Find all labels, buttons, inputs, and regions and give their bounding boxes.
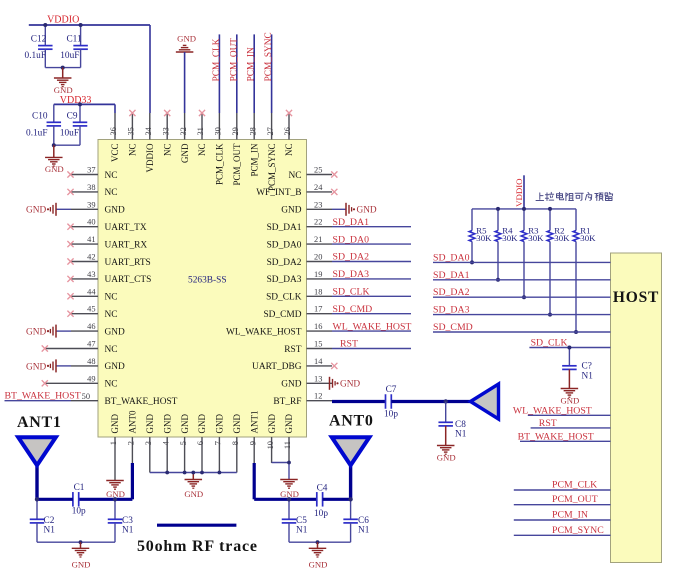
svg-text:C8: C8	[455, 420, 466, 430]
svg-text:32: 32	[179, 127, 188, 135]
svg-text:PCM_SYNC: PCM_SYNC	[552, 525, 604, 536]
svg-text:GND: GND	[26, 206, 46, 216]
svg-text:28: 28	[248, 127, 257, 135]
svg-text:GND: GND	[45, 164, 64, 174]
svg-text:PCM_CLK: PCM_CLK	[215, 143, 225, 185]
svg-text:NC: NC	[128, 144, 138, 157]
svg-text:49: 49	[87, 374, 95, 383]
svg-text:33: 33	[161, 127, 170, 135]
svg-text:GND: GND	[180, 414, 190, 434]
svg-text:41: 41	[87, 235, 95, 244]
svg-text:SD_DA0: SD_DA0	[433, 252, 470, 263]
svg-text:N1: N1	[44, 526, 56, 536]
svg-text:GND: GND	[437, 453, 456, 463]
svg-text:50ohm RF trace: 50ohm RF trace	[137, 538, 258, 555]
svg-text:VDDIO: VDDIO	[145, 143, 155, 172]
svg-text:NC: NC	[105, 310, 118, 320]
svg-text:BT_WAKE_HOST: BT_WAKE_HOST	[105, 397, 178, 407]
svg-text:7: 7	[214, 441, 223, 445]
svg-text:GND: GND	[110, 414, 120, 434]
svg-text:39: 39	[87, 200, 95, 209]
svg-text:10uF: 10uF	[60, 129, 79, 139]
svg-text:48: 48	[87, 357, 95, 366]
svg-text:26: 26	[283, 127, 292, 135]
svg-text:25: 25	[314, 166, 322, 175]
svg-text:SD_DA3: SD_DA3	[433, 305, 470, 316]
svg-text:37: 37	[87, 166, 95, 175]
svg-text:10p: 10p	[72, 506, 86, 516]
svg-text:SD_CLK: SD_CLK	[531, 338, 568, 349]
svg-text:C5: C5	[296, 516, 307, 526]
svg-text:C4: C4	[317, 484, 328, 494]
svg-text:WL_WAKE_HOST: WL_WAKE_HOST	[226, 327, 302, 337]
svg-text:GND: GND	[72, 560, 91, 570]
svg-text:ANT0: ANT0	[128, 410, 138, 433]
svg-text:RST: RST	[340, 339, 358, 350]
svg-text:PCM_SYNC: PCM_SYNC	[264, 32, 274, 81]
svg-text:SD_DA1: SD_DA1	[333, 217, 370, 228]
svg-text:GND: GND	[197, 414, 207, 434]
svg-text:30K: 30K	[580, 233, 596, 243]
svg-text:17: 17	[314, 305, 322, 314]
svg-text:46: 46	[87, 322, 95, 331]
svg-text:GND: GND	[26, 328, 46, 338]
svg-text:50: 50	[82, 392, 90, 401]
svg-text:SD_DA3: SD_DA3	[267, 275, 302, 285]
svg-text:GND: GND	[162, 414, 172, 434]
svg-text:42: 42	[87, 253, 95, 262]
svg-text:27: 27	[266, 127, 275, 135]
svg-text:BT_WAKE_HOST: BT_WAKE_HOST	[5, 391, 81, 402]
svg-text:11: 11	[283, 441, 292, 449]
svg-text:UART_RX: UART_RX	[105, 240, 148, 250]
svg-text:N1: N1	[455, 430, 467, 440]
svg-text:13: 13	[314, 374, 322, 383]
svg-text:24: 24	[314, 183, 323, 192]
svg-text:NC: NC	[288, 171, 301, 181]
svg-text:PCM_CLK: PCM_CLK	[212, 38, 222, 81]
svg-text:UART_TX: UART_TX	[105, 223, 147, 233]
svg-text:0.1uF: 0.1uF	[26, 129, 47, 139]
svg-text:NC: NC	[105, 380, 118, 390]
svg-text:GND: GND	[180, 143, 190, 163]
svg-text:GND: GND	[215, 414, 225, 434]
svg-text:VCC: VCC	[110, 144, 120, 163]
svg-text:30K: 30K	[528, 233, 544, 243]
svg-text:N1: N1	[296, 526, 308, 536]
svg-text:VDDIO: VDDIO	[47, 14, 79, 25]
svg-text:PCM_SYNC: PCM_SYNC	[267, 144, 277, 192]
svg-text:C2: C2	[44, 516, 55, 526]
svg-text:10uF: 10uF	[60, 51, 79, 61]
svg-text:2: 2	[127, 441, 136, 445]
svg-text:SD_DA0: SD_DA0	[267, 240, 302, 250]
svg-text:N1: N1	[358, 526, 370, 536]
svg-text:21: 21	[314, 235, 322, 244]
svg-text:SD_CMD: SD_CMD	[263, 310, 301, 320]
svg-text:GND: GND	[267, 414, 277, 434]
svg-text:GND: GND	[280, 489, 299, 499]
svg-text:GND: GND	[177, 34, 196, 44]
svg-text:NC: NC	[162, 144, 172, 157]
svg-text:0.1uF: 0.1uF	[25, 51, 46, 61]
svg-text:40: 40	[87, 218, 95, 227]
svg-text:C6: C6	[358, 516, 369, 526]
svg-text:ANT1: ANT1	[17, 414, 62, 431]
svg-text:30K: 30K	[502, 233, 518, 243]
svg-text:GND: GND	[106, 489, 125, 499]
svg-text:NC: NC	[105, 171, 118, 181]
svg-text:23: 23	[314, 200, 322, 209]
svg-text:5: 5	[179, 441, 188, 445]
svg-text:PCM_IN: PCM_IN	[552, 510, 588, 521]
svg-text:NC: NC	[105, 188, 118, 198]
svg-text:19: 19	[314, 270, 322, 279]
svg-text:38: 38	[87, 183, 95, 192]
svg-text:30: 30	[214, 127, 223, 135]
svg-text:35: 35	[127, 127, 136, 135]
svg-text:45: 45	[87, 305, 95, 314]
svg-text:UART_DBG: UART_DBG	[252, 362, 302, 372]
svg-text:PCM_OUT: PCM_OUT	[552, 494, 598, 505]
svg-text:8: 8	[231, 441, 240, 445]
svg-text:UART_RTS: UART_RTS	[105, 258, 151, 268]
svg-text:C9: C9	[67, 111, 78, 121]
svg-text:SD_CLK: SD_CLK	[333, 287, 370, 298]
svg-text:C1: C1	[74, 483, 85, 493]
svg-text:C?: C?	[582, 362, 592, 372]
svg-text:GND: GND	[145, 414, 155, 434]
svg-text:C10: C10	[32, 111, 48, 121]
svg-text:GND: GND	[184, 489, 203, 499]
svg-text:31: 31	[196, 127, 205, 135]
svg-text:SD_DA2: SD_DA2	[267, 258, 302, 268]
svg-text:1: 1	[109, 441, 118, 445]
svg-text:GND: GND	[309, 560, 328, 570]
svg-text:GND: GND	[105, 362, 126, 372]
svg-text:PCM_IN: PCM_IN	[249, 143, 259, 177]
svg-text:SD_DA2: SD_DA2	[333, 252, 370, 263]
svg-text:30K: 30K	[554, 233, 570, 243]
svg-text:6: 6	[196, 441, 205, 445]
svg-text:GND: GND	[105, 206, 126, 216]
svg-text:C3: C3	[122, 516, 133, 526]
svg-text:36: 36	[109, 127, 118, 135]
svg-text:NC: NC	[105, 293, 118, 303]
svg-text:SD_DA2: SD_DA2	[433, 287, 470, 298]
svg-text:NC: NC	[284, 144, 294, 157]
svg-text:SD_DA3: SD_DA3	[333, 269, 370, 280]
svg-text:47: 47	[87, 340, 95, 349]
svg-text:ANT1: ANT1	[249, 411, 259, 434]
svg-text:GND: GND	[232, 414, 242, 434]
svg-text:GND: GND	[105, 327, 126, 337]
svg-text:UART_CTS: UART_CTS	[105, 275, 152, 285]
svg-text:SD_CLK: SD_CLK	[266, 293, 302, 303]
svg-text:BT_WAKE_HOST: BT_WAKE_HOST	[518, 431, 594, 442]
svg-text:14: 14	[314, 357, 323, 366]
svg-text:9: 9	[248, 441, 257, 445]
svg-text:29: 29	[231, 127, 240, 135]
svg-text:N1: N1	[582, 372, 594, 382]
svg-text:C7: C7	[386, 385, 397, 395]
svg-text:PCM_CLK: PCM_CLK	[552, 480, 597, 491]
svg-text:C12: C12	[31, 35, 47, 45]
svg-text:WL_WAKE_HOST: WL_WAKE_HOST	[333, 321, 412, 332]
svg-text:GND: GND	[281, 380, 302, 390]
svg-text:RST: RST	[539, 418, 557, 429]
svg-text:SD_CMD: SD_CMD	[433, 322, 473, 333]
svg-text:C11: C11	[66, 35, 82, 45]
svg-text:ANT0: ANT0	[329, 413, 374, 430]
svg-text:WF_INT_B: WF_INT_B	[256, 188, 301, 198]
svg-text:5263B-SS: 5263B-SS	[188, 275, 227, 285]
svg-text:18: 18	[314, 287, 322, 296]
svg-text:10: 10	[266, 441, 275, 449]
svg-text:GND: GND	[281, 206, 302, 216]
svg-text:SD_DA1: SD_DA1	[433, 270, 470, 281]
svg-text:WL_WAKE_HOST: WL_WAKE_HOST	[513, 405, 592, 416]
svg-text:SD_DA0: SD_DA0	[333, 234, 370, 245]
svg-text:43: 43	[87, 270, 95, 279]
svg-text:HOST: HOST	[613, 289, 659, 306]
svg-text:NC: NC	[197, 144, 207, 157]
svg-text:GND: GND	[26, 362, 46, 372]
svg-text:GND: GND	[284, 414, 294, 434]
svg-text:SD_DA1: SD_DA1	[267, 223, 302, 233]
svg-text:PCM_OUT: PCM_OUT	[229, 38, 239, 82]
svg-text:GND: GND	[340, 380, 360, 390]
svg-text:BT_RF: BT_RF	[273, 397, 301, 407]
svg-text:PCM_OUT: PCM_OUT	[232, 143, 242, 186]
svg-text:GND: GND	[54, 85, 73, 95]
svg-text:PCM_IN: PCM_IN	[247, 47, 257, 81]
svg-text:34: 34	[144, 126, 153, 135]
svg-text:10p: 10p	[314, 509, 328, 519]
svg-text:VDDIO: VDDIO	[514, 178, 524, 206]
svg-text:RST: RST	[284, 345, 301, 355]
svg-text:20: 20	[314, 253, 322, 262]
svg-text:N1: N1	[122, 526, 134, 536]
svg-text:NC: NC	[105, 345, 118, 355]
svg-text:10p: 10p	[384, 410, 398, 420]
svg-text:12: 12	[314, 392, 322, 401]
svg-text:GND: GND	[560, 396, 579, 406]
svg-text:15: 15	[314, 340, 322, 349]
svg-text:16: 16	[314, 322, 322, 331]
svg-text:3: 3	[144, 441, 153, 445]
svg-text:44: 44	[87, 287, 96, 296]
svg-text:22: 22	[314, 218, 322, 227]
svg-text:SD_CMD: SD_CMD	[333, 304, 373, 315]
svg-text:GND: GND	[357, 206, 377, 216]
svg-text:30K: 30K	[476, 233, 492, 243]
